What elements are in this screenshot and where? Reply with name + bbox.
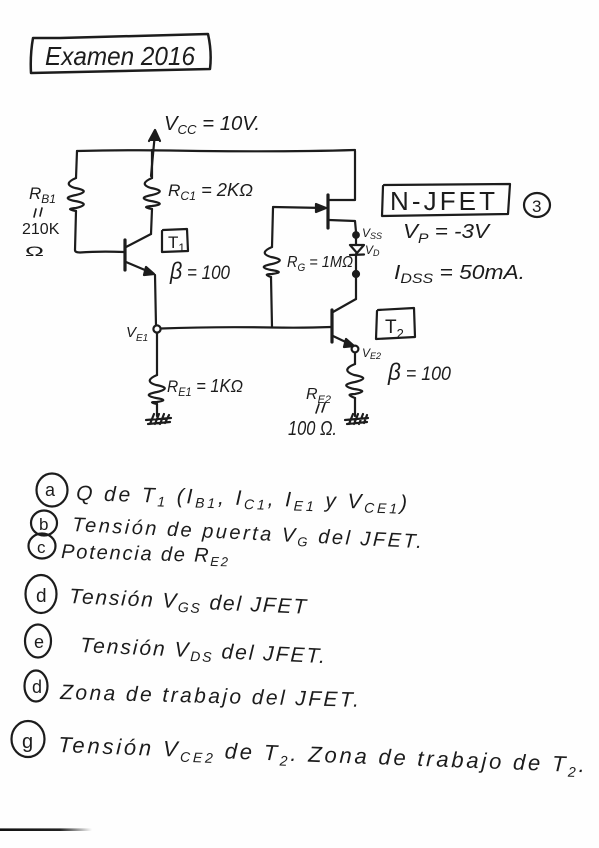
svg-text:d: d bbox=[36, 586, 47, 607]
circled 3 bbox=[524, 193, 550, 217]
scan artifact bottom line bbox=[0, 0, 1, 1]
transistor Q T1 bbox=[123, 240, 126, 270]
wire left branch down to RB1 bbox=[76, 151, 77, 178]
resistor RE2 bbox=[346, 364, 363, 398]
circle a bbox=[37, 474, 68, 507]
wire RC1 top bbox=[151, 150, 153, 178]
svg-text:g: g bbox=[22, 731, 33, 753]
svg-text:VP = -3V: VP = -3V bbox=[403, 221, 491, 246]
wire RC1 to T1 collector bbox=[151, 209, 152, 234]
wire RE1 to ground bbox=[156, 404, 158, 416]
diode VD bbox=[350, 238, 364, 255]
svg-text:Examen 2016: Examen 2016 bbox=[45, 41, 195, 71]
circle d bbox=[26, 575, 57, 613]
svg-text:3: 3 bbox=[532, 197, 541, 216]
wire RB1 to T1 base bbox=[75, 211, 124, 253]
label box T2 bbox=[376, 308, 415, 339]
wire RG top from gate bbox=[272, 208, 273, 247]
svg-text:210K: 210K bbox=[22, 221, 60, 238]
svg-text:a: a bbox=[45, 480, 56, 500]
wire diode to node bbox=[355, 254, 357, 271]
JFET J1 bbox=[326, 195, 329, 228]
wire VE1 to RE1 bbox=[156, 333, 158, 375]
wire RE2 to ground bbox=[354, 398, 356, 416]
label box N-JFET bbox=[382, 184, 510, 216]
node VE1 bbox=[153, 325, 160, 332]
wire T1 emitter down bbox=[155, 275, 156, 326]
svg-text:β = 100: β = 100 bbox=[387, 359, 451, 386]
svg-text:β = 100: β = 100 bbox=[169, 258, 230, 285]
resistor RG bbox=[264, 247, 280, 277]
wire RG bottom bbox=[271, 277, 272, 327]
resistor RB1 bbox=[68, 178, 84, 211]
svg-text:d: d bbox=[32, 677, 42, 697]
transistor T2 bbox=[330, 310, 333, 342]
node VE2 bbox=[352, 346, 359, 353]
circle b bbox=[31, 511, 57, 536]
circle g bbox=[12, 721, 45, 757]
ditto mark under RB1 bbox=[34, 208, 42, 217]
ditto mark under RE2 bbox=[316, 403, 325, 413]
wire VE1 to T2 base bbox=[161, 327, 331, 329]
circle c bbox=[29, 534, 56, 559]
resistor RE1 bbox=[149, 375, 165, 404]
wire top rail bbox=[77, 150, 355, 151]
svg-text:b: b bbox=[39, 515, 48, 534]
node Vss dot bbox=[353, 232, 359, 238]
svg-text:c: c bbox=[37, 538, 46, 557]
ground under RE1 bbox=[146, 414, 171, 424]
svg-text:Ω: Ω bbox=[25, 243, 44, 259]
ground under RE2 bbox=[345, 414, 368, 424]
circle e bbox=[25, 625, 51, 658]
svg-text:N-JFET: N-JFET bbox=[390, 186, 495, 216]
svg-text:100 Ω.: 100 Ω. bbox=[288, 418, 337, 440]
wire node to T2 collector bbox=[355, 277, 357, 299]
circle f bbox=[25, 671, 48, 702]
node dot bbox=[353, 271, 359, 277]
svg-text:e: e bbox=[34, 632, 44, 652]
wire Vcc arrow bbox=[151, 133, 155, 176]
resistor RC1 bbox=[144, 178, 160, 209]
label box T1 bbox=[162, 229, 188, 252]
wire VE2 to RE2 bbox=[354, 353, 356, 364]
title box Examen 2016 bbox=[31, 34, 211, 73]
